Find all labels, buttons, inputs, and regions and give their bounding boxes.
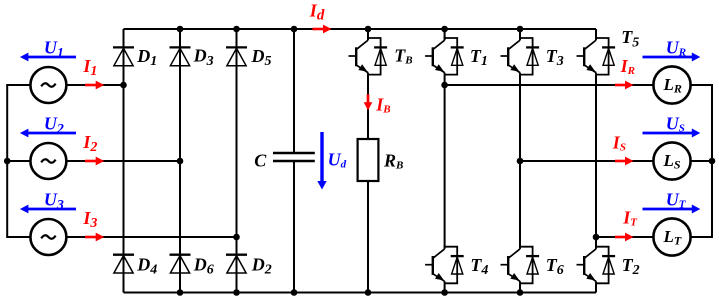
- current arrow IS: [615, 160, 627, 163]
- wire inverter leg T6 bottom stub: [519, 283, 521, 292]
- wire phase 3 to rectifier: [65, 236, 236, 238]
- wire inverter leg T3 midpoint vertical: [519, 75, 521, 248]
- wire left neutral bus: [6, 85, 8, 237]
- diode D6: [170, 255, 191, 273]
- wire rectifier leg 2 vertical: [179, 29, 181, 293]
- wire load LT right lead: [690, 236, 712, 238]
- load LT: [653, 218, 690, 255]
- wire rectifier leg 3 vertical: [236, 29, 238, 293]
- wire inverter leg T5 top stub: [595, 29, 597, 40]
- diode D2: [226, 255, 247, 273]
- wire capacitor bottom lead: [293, 161, 295, 293]
- wire inverter leg T5 midpoint vertical: [595, 75, 597, 248]
- AC source G2: [30, 143, 66, 179]
- wire negative DC rail: [124, 292, 597, 294]
- load LR: [653, 66, 690, 103]
- wire source 1 left lead: [6, 84, 31, 86]
- node top rail junction: [177, 26, 184, 33]
- node bottom rail junction: [291, 289, 298, 296]
- diode D5: [226, 47, 247, 65]
- wire phase S output: [520, 160, 654, 162]
- wire phase T output: [596, 236, 654, 238]
- node top rail junction: [517, 26, 524, 33]
- node inverter phase output 3: [593, 234, 600, 241]
- diode D1: [113, 47, 134, 65]
- wire inverter leg T1 top stub: [444, 29, 446, 40]
- current arrow IR: [615, 84, 627, 87]
- wire source 3 left lead: [6, 236, 31, 238]
- node bottom rail junction: [233, 289, 240, 296]
- node bottom rail junction: [441, 289, 448, 296]
- wire source 2 left lead: [6, 160, 31, 162]
- node inverter phase output 2: [517, 158, 524, 165]
- current arrow IB: [367, 94, 370, 103]
- voltage arrow UT: [643, 208, 694, 211]
- wire brake leg top stub: [367, 29, 369, 40]
- wire phase R output: [445, 84, 655, 86]
- node top rail junction: [441, 26, 448, 33]
- wire right bus: [711, 84, 713, 238]
- node phase 3 at D5 leg: [233, 234, 240, 241]
- node bottom rail junction: [517, 289, 524, 296]
- node top rail junction: [291, 26, 298, 33]
- svg-text:C: C: [254, 150, 267, 170]
- capacitor C: [273, 153, 315, 161]
- node inverter phase output 1: [441, 82, 448, 89]
- voltage arrow U2: [27, 132, 76, 135]
- diode D4: [113, 255, 134, 273]
- wire rectifier leg 1 vertical: [123, 29, 125, 293]
- IGBT T6 with freewheeling diode: [501, 245, 540, 283]
- wire inverter leg T1 midpoint vertical: [444, 75, 446, 248]
- diode D3: [170, 47, 191, 65]
- wire brake leg lower: [367, 75, 369, 293]
- wire load LR right lead: [690, 84, 712, 86]
- wire phase 2 to rectifier: [65, 160, 180, 162]
- node phase 2 at D3 leg: [177, 158, 184, 165]
- node top rail junction: [365, 26, 372, 33]
- current arrow I3: [85, 236, 97, 239]
- IGBT T1 with freewheeling diode: [425, 37, 464, 75]
- wire inverter leg T4 bottom stub: [444, 283, 446, 292]
- IGBT T2 with freewheeling diode: [577, 245, 616, 283]
- AC source G1: [30, 67, 66, 103]
- node bottom rail junction: [365, 289, 372, 296]
- wire phase 1 to rectifier: [65, 84, 123, 86]
- resistor RB: [358, 139, 379, 181]
- voltage arrow UR: [643, 56, 694, 59]
- IGBT T3 with freewheeling diode: [501, 37, 540, 75]
- load LS: [653, 142, 690, 179]
- node right bus junction: [709, 158, 716, 165]
- AC source G3: [30, 219, 66, 255]
- node left bus junction: [4, 158, 11, 165]
- current arrow I1: [85, 84, 97, 87]
- node bottom rail junction: [177, 289, 184, 296]
- wire load LS right lead: [690, 160, 712, 162]
- current arrow I2: [85, 160, 97, 163]
- wire inverter leg T2 bottom stub: [595, 283, 597, 292]
- voltage arrow U1: [27, 56, 76, 59]
- voltage arrow Ud: [320, 132, 323, 183]
- voltage arrow US: [643, 132, 694, 135]
- IGBT T4 with freewheeling diode: [425, 245, 464, 283]
- IGBT T5 with freewheeling diode: [577, 37, 616, 75]
- wire positive DC rail: [124, 28, 597, 30]
- wire inverter leg T3 top stub: [519, 29, 521, 40]
- current arrow IT: [615, 236, 627, 239]
- voltage arrow U3: [27, 208, 76, 211]
- wire capacitor top lead: [293, 29, 295, 153]
- node phase 1 at D1 leg: [120, 82, 127, 89]
- node top rail junction: [233, 26, 240, 33]
- IGBT TB with freewheeling diode: [349, 37, 388, 75]
- current arrow Id: [313, 28, 325, 31]
